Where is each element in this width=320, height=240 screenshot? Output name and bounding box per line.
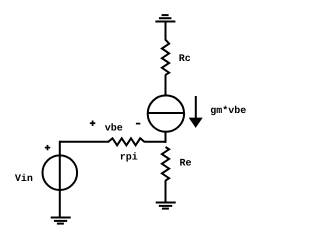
wire: rpi to node E (horizontal) (144, 141, 167, 143)
svg-text:Rc: Rc (179, 54, 191, 65)
dependent current source G1 (gm*vbe) (148, 95, 184, 131)
svg-text:gm*vbe: gm*vbe (210, 105, 246, 117)
voltage source Vin (43, 155, 78, 190)
resistor Re (162, 147, 169, 181)
wire: Vin top corner to rpi (60, 141, 109, 143)
svg-text:vbe: vbe (105, 122, 123, 134)
resistor Rc (162, 40, 169, 75)
ground (below Vin) (51, 218, 71, 224)
- polarity mark (vbe, right of rpi) (136, 123, 140, 125)
current direction arrow (points down) (189, 96, 203, 128)
wire: Re to bottom ground (165, 180, 167, 202)
+ polarity mark (Vin, above source) (45, 145, 50, 150)
wire: current source bottom to node E (165, 131, 167, 142)
wire: top ground to resistor Rc (165, 22, 167, 41)
svg-text:Re: Re (180, 159, 192, 170)
wire: Rc to current source top (165, 75, 167, 97)
resistor rpi (108, 138, 144, 145)
+ polarity mark (vbe, left of rpi) (90, 121, 95, 126)
svg-text:Vin: Vin (15, 173, 33, 185)
ground (top supply, above Rc, inverted earth symbol) (155, 15, 175, 21)
wire: corner through voltage source Vin down to ground (59, 141, 61, 218)
ground (below Re) (156, 203, 176, 209)
svg-text:rpi: rpi (120, 152, 138, 164)
